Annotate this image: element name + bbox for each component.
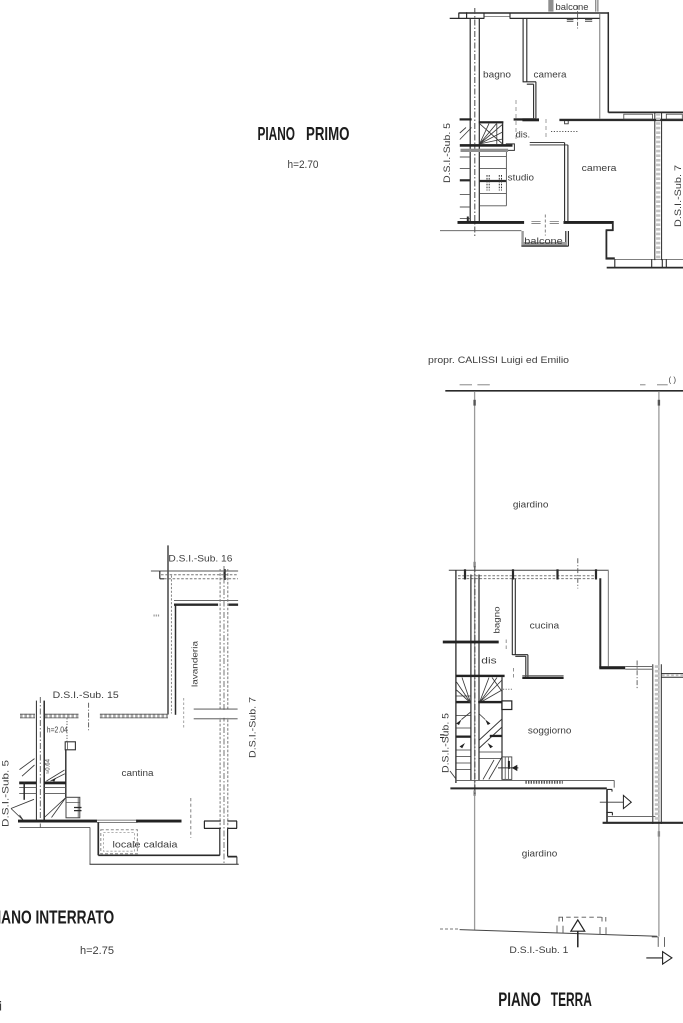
west wall inner face	[175, 604, 177, 715]
svg-text:TERRA: TERRA	[551, 989, 592, 1011]
balcone (bottom) grey band	[521, 242, 567, 246]
cucina east wall outer	[607, 571, 609, 666]
stair arrows lower	[460, 743, 494, 748]
neighbour wall upper line	[608, 111, 683, 113]
boundary line to Sub16	[151, 570, 238, 572]
balcone (bottom) bottom edge	[521, 245, 568, 247]
caldaia door sill	[97, 820, 138, 822]
hatched wall tick	[224, 569, 226, 580]
svg-text:h=2.70: h=2.70	[288, 159, 319, 171]
dotted mark in camera	[551, 131, 579, 133]
neighbour door jamb	[467, 217, 469, 222]
axis dash-dot in east wall	[223, 566, 225, 865]
door swing dashes in dis	[515, 100, 517, 140]
chimney flue box	[65, 742, 75, 750]
stair treads lower	[457, 750, 503, 770]
svg-text:dis.: dis.	[516, 130, 531, 140]
landing grey tread	[461, 149, 509, 152]
svg-text:dis: dis	[481, 656, 497, 666]
stair upper diagonal arrow right	[47, 770, 65, 781]
svg-text:giardino: giardino	[522, 849, 558, 859]
cucina east wall inner	[599, 578, 601, 668]
terrace inner wall line	[608, 815, 656, 817]
cucina south wall	[522, 675, 563, 677]
soggiorno south wall	[450, 787, 606, 789]
studio/camera divider wall	[565, 143, 568, 222]
rear window band lower wall	[607, 267, 683, 269]
corner brackets SE	[652, 937, 665, 947]
svg-text:cantina: cantina	[122, 768, 154, 778]
cantina south wall	[18, 820, 97, 823]
svg-text:D.S.I.-Sub. 5: D.S.I.-Sub. 5	[1, 760, 12, 827]
party wall D.S.I.-Sub.7 hatched	[655, 112, 662, 260]
camera top wall	[559, 119, 683, 121]
svg-text:PIANO: PIANO	[258, 123, 296, 144]
svg-text:PIANO INTERRATO: PIANO INTERRATO	[0, 907, 114, 928]
axis cross on boundary	[88, 703, 90, 731]
north wall ticks	[465, 569, 596, 579]
divider jog	[523, 82, 536, 84]
SE arrow (right)	[646, 957, 662, 959]
camera door notch	[565, 121, 569, 124]
dotted axis above chimney	[66, 718, 68, 742]
dis/camera door wall	[514, 118, 536, 120]
dis south wall	[456, 675, 505, 677]
soggiorno south wall top line	[455, 780, 614, 787]
balcone (bottom) left grey edge	[521, 231, 523, 246]
landing slab edge	[460, 144, 513, 147]
stair lower diagonals right	[44, 798, 66, 818]
svg-text:h=2.04: h=2.04	[47, 726, 69, 735]
stair upper winders	[480, 124, 503, 144]
locale caldaia south inner wall	[98, 855, 237, 856]
south wall right of door	[136, 820, 181, 823]
neighbour stair treads	[460, 157, 470, 219]
stair arrows mid	[456, 720, 490, 726]
svg-text:cucina: cucina	[530, 621, 560, 631]
svg-text:balcone: balcone	[524, 236, 563, 246]
wall top band inner line	[459, 17, 600, 19]
lavanderia inner wall dark	[174, 604, 238, 606]
svg-text:≈0.64: ≈0.64	[46, 758, 52, 774]
stair dark landing edge right	[44, 782, 66, 785]
locale caldaia south outer line	[90, 863, 239, 865]
party wall lines	[471, 575, 479, 781]
cucina wall jog	[512, 655, 528, 657]
stair lower diagonals left	[11, 799, 34, 820]
svg-text:D.S.I.-Sub. 7: D.S.I.-Sub. 7	[673, 165, 683, 227]
svg-text:D.S.I.-Sub. 15: D.S.I.-Sub. 15	[53, 690, 119, 701]
stair dark bar left upper	[457, 701, 471, 703]
lower flight box	[66, 797, 80, 818]
svg-text:soggiorno: soggiorno	[528, 726, 572, 736]
door opening through east wall	[218, 710, 230, 718]
east door wall	[606, 789, 608, 812]
boundary ticks	[473, 400, 475, 406]
window sill marks below top wall	[567, 19, 592, 21]
svg-text:D.S.I.-Sub. 1: D.S.I.-Sub. 1	[509, 945, 568, 956]
divider nub to studio	[530, 143, 568, 145]
svg-text:h=2.75: h=2.75	[80, 945, 114, 957]
svg-text:bagno: bagno	[483, 70, 511, 80]
east wall corner	[606, 812, 608, 822]
rear window band upper line	[606, 258, 683, 260]
Sub15 boundary hatched wall segments	[20, 714, 168, 718]
recess window lines	[625, 667, 652, 670]
svg-text:PIANO: PIANO	[498, 989, 541, 1011]
house west wall	[455, 570, 457, 783]
neighbour stair tread dark	[460, 179, 470, 181]
svg-text:D.S.I.-Sub. 5: D.S.I.-Sub. 5	[442, 123, 453, 183]
door top jamb	[607, 789, 612, 791]
stair side closet	[502, 701, 512, 710]
svg-text:lavanderia: lavanderia	[190, 641, 200, 687]
stair treads mid left	[457, 716, 471, 729]
neighbour window box	[624, 114, 653, 119]
entrance arrow (up)	[571, 920, 585, 931]
hatched wall horizontal to east	[661, 674, 683, 678]
balcone (bottom) right double edge	[566, 231, 569, 246]
svg-text:D.S.I.-Sub. 7: D.S.I.-Sub. 7	[248, 697, 259, 758]
party wall axis dash-dot	[39, 697, 41, 828]
stair dark bar left mid	[457, 736, 471, 738]
party wall Sub7 hatched vertical	[653, 664, 662, 824]
axis dash-dot at cucina window	[577, 558, 579, 588]
stair bottom diagonal	[483, 757, 502, 779]
door axis dashes near dis	[505, 640, 507, 651]
outer corner notch	[160, 571, 164, 579]
party wall line right	[478, 19, 480, 223]
south wall hollow stub left of party	[204, 821, 221, 828]
studio bottom wall	[458, 221, 525, 224]
svg-text:( ): ( )	[669, 376, 677, 385]
studio stair treads	[480, 157, 507, 206]
studio stair right edge	[505, 152, 507, 206]
party boundary dash-dot axis	[474, 8, 476, 236]
divider lower	[534, 82, 536, 119]
stair-top wall	[479, 121, 504, 123]
svg-text:i: i	[0, 1000, 2, 1014]
lavanderia door axis dashed	[183, 698, 185, 728]
house north wall hatched band	[458, 576, 597, 579]
garden west boundary grey line	[474, 392, 476, 930]
svg-text:giardino: giardino	[513, 500, 549, 510]
facade line left of balcone	[440, 230, 521, 232]
svg-text:D.S.I.-Sub. 5: D.S.I.-Sub. 5	[441, 713, 452, 773]
stair winders left upper	[457, 678, 471, 704]
svg-text:propr. CALISSI Luigi ed Emil: propr. CALISSI Luigi ed Emilio	[428, 355, 569, 366]
lot south boundary	[460, 930, 658, 937]
right outer wall inner face	[599, 13, 601, 119]
bagno/cucina west wall	[512, 579, 515, 655]
svg-text:locale caldaia: locale caldaia	[113, 840, 178, 850]
camera SE corner jog	[606, 224, 614, 259]
stair entry arrow	[498, 767, 518, 769]
boundary dashes above	[460, 384, 668, 386]
axis dash-dot at sub7 window	[636, 661, 638, 690]
neighbour stair diagonal	[460, 128, 472, 140]
svg-text:camera: camera	[582, 163, 617, 173]
camera south wall	[606, 257, 615, 259]
bagno/camera divider wall upper	[523, 19, 527, 82]
lavanderia north hatched wall	[161, 575, 238, 579]
balcony (top, cut) rail post	[548, 0, 553, 12]
stair winders upper right	[479, 678, 502, 704]
stair direction tiny labels	[487, 175, 489, 191]
rear window jambs	[615, 259, 667, 267]
recess south wall	[599, 666, 625, 669]
svg-text:bagno: bagno	[492, 606, 502, 633]
door bottom jamb	[607, 812, 612, 815]
west wall hatch axis	[170, 576, 172, 714]
west wall outer face (with boundary tick)	[167, 545, 169, 714]
svg-text:D.S.I.-Sub. 16: D.S.I.-Sub. 16	[168, 554, 232, 565]
east door arrow	[600, 801, 624, 803]
party axis dash-dot	[474, 566, 476, 795]
window ticks on west wall	[154, 615, 161, 617]
stair mid vertical left	[23, 782, 25, 800]
svg-text:camera: camera	[534, 70, 567, 80]
french door sill	[525, 781, 562, 784]
boundary ticks near gate	[557, 926, 606, 935]
stair lower-right steps box	[502, 757, 512, 780]
neighbour caldaia outline	[20, 826, 90, 828]
centre axis dash-dot at balcone door	[577, 6, 579, 29]
window in top wall	[484, 16, 510, 18]
balcony rail double line right	[596, 0, 598, 12]
stair dark bar right upper	[478, 701, 502, 703]
party wall solid faces in caldaia	[220, 828, 228, 856]
chimney wall line down	[65, 750, 67, 798]
french door sill marks	[531, 222, 559, 224]
studio stair tread dark	[480, 180, 507, 182]
gate dashed line	[559, 916, 604, 918]
wall stub top-left	[450, 12, 467, 18]
house north wall top line	[449, 569, 609, 571]
dotted mark below dis	[503, 688, 513, 690]
neighbour stair bottom diagonal	[450, 771, 456, 779]
neighbour window box right of party wall	[666, 114, 682, 119]
bagno south wall	[443, 641, 499, 644]
bagno bottom wall left part	[460, 118, 472, 120]
svg-text:balcone: balcone	[556, 2, 589, 12]
neighbour stub left	[440, 735, 444, 738]
lot north boundary	[445, 390, 683, 392]
stair ramp diagonal band	[479, 719, 502, 748]
party wall lines	[35, 701, 37, 821]
party wall line left	[469, 18, 471, 222]
stair dark landing edge left	[19, 782, 36, 785]
stair upper enclosure right wall	[502, 123, 504, 144]
stair right enclosure wall	[501, 677, 503, 779]
east hatched party wall Sub7	[220, 569, 228, 829]
svg-text:PRIMO: PRIMO	[306, 123, 350, 144]
svg-text:studio: studio	[508, 173, 534, 183]
south wall hollow stub right of party	[227, 821, 237, 828]
camera bottom wall	[564, 221, 614, 224]
door axis dash	[544, 215, 546, 236]
locale caldaia west walls	[89, 827, 91, 864]
landing step profile	[506, 144, 515, 151]
stair treads	[19, 787, 66, 793]
boiler dashed box	[101, 830, 138, 854]
right outer wall	[607, 12, 609, 112]
stair upper winder diagonals left	[20, 759, 35, 777]
door axis dashed	[190, 798, 192, 838]
wall top band outer line	[459, 12, 610, 14]
terrace south wall	[603, 822, 683, 824]
stair dark bar right mid	[490, 735, 502, 737]
divider foot block	[522, 118, 539, 121]
garden east boundary grey line	[658, 392, 660, 936]
lavanderia inner wall thin line	[174, 600, 238, 602]
